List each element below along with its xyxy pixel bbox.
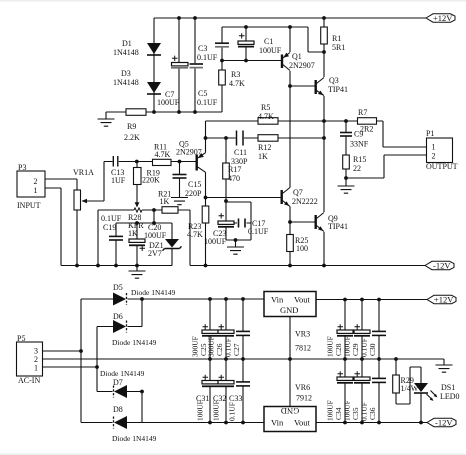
svg-text:AC-IN: AC-IN [18,376,40,385]
capacitor C26 [218,324,234,336]
wire Q1 collector to Q7 collector [289,71,291,188]
potentiometer VR1A [74,190,104,210]
wire D6 row [97,299,142,327]
capacitor C17 [239,219,246,228]
wire C32 branch [225,359,227,423]
svg-text:4.7K: 4.7K [258,112,274,121]
connector P1 [427,138,453,163]
svg-text:470: 470 [228,174,240,183]
wire R25 branch [289,222,291,266]
wire C1 branch [245,27,247,60]
wire C11/R12 row [206,137,325,139]
svg-text:33NF: 33NF [350,140,369,149]
capacitor C9 [340,133,352,137]
wire P5 pin1 [42,366,97,368]
wire R28 row [98,210,190,266]
wire Q5 emitter branch [205,121,207,153]
svg-text:2N2907: 2N2907 [289,61,315,70]
capacitor C1 [238,33,254,46]
wire C9/R15 branch [345,121,347,186]
svg-text:-12V: -12V [433,261,451,271]
svg-text:C36: C36 [368,407,377,420]
svg-text:+12V: +12V [433,13,453,23]
svg-text:100: 100 [296,244,308,253]
svg-text:1K: 1K [160,197,170,206]
wire P1 pin2 return [346,155,427,178]
capacitor C19 [109,236,123,240]
wire Q7 emitter [289,207,291,223]
resistor R19 [134,168,142,185]
svg-text:DS1: DS1 [441,383,455,392]
wire AC leg B vertical [96,327,98,392]
svg-text:LED0: LED0 [440,392,460,401]
wire zener box top [116,210,172,223]
wire C26 branch [225,299,227,359]
svg-text:GND: GND [281,406,299,416]
svg-text:INPUT: INPUT [17,201,41,210]
flag +12V top [426,13,455,23]
svg-text:R15: R15 [353,155,366,164]
wire C13/R11 row [104,161,196,163]
wire C33 branch [242,359,244,423]
diode D7 [114,385,128,398]
resistor R11 [153,159,172,165]
svg-text:Vin: Vin [271,418,284,428]
capacitor C31 [202,375,218,387]
svg-text:R1: R1 [332,34,341,43]
svg-text:D8: D8 [113,405,123,414]
svg-text:Diode 1N4149: Diode 1N4149 [112,338,157,347]
LED DS1 [414,383,437,401]
wire Q9 base [290,221,315,223]
resistor R5 [258,118,278,125]
wire VR1A bottom [76,210,78,266]
connector P5 [17,342,43,376]
wire C5 branch [194,18,196,112]
wire R9 row to ground [106,112,222,119]
svg-text:1K: 1K [128,229,138,238]
wire -12V rail amp [190,210,425,266]
wire Q5.C to Q7.B row [206,197,282,199]
wire input ground rail [61,265,172,267]
connector P3 [17,171,45,197]
wire C20 branch [136,223,138,271]
svg-text:1: 1 [34,364,38,373]
svg-text:2V7: 2V7 [148,249,162,258]
svg-text:22: 22 [353,164,361,173]
ground zener box [129,271,146,278]
wire C25 branch [209,299,211,359]
flag +12V psu [427,295,456,305]
svg-text:P5: P5 [17,334,25,343]
svg-text:Q3: Q3 [329,76,339,85]
svg-text:R17: R17 [228,165,241,174]
svg-text:100UF: 100UF [259,46,282,55]
wire negative raw rail [142,422,264,424]
resistor R21 [162,207,178,214]
wire PSU ground rail [42,359,444,365]
diode D8 [114,416,128,429]
wire Q5 collector [205,172,207,197]
wire R17 branch [225,138,227,221]
wire D5 row [81,298,142,300]
ground under C23 [227,247,244,254]
wire C15 branch [179,162,181,198]
wire C7 branch [178,18,180,112]
wire DZ1 branch [171,223,173,266]
ground under C15 [171,198,188,205]
wire base row Q1 [222,60,281,62]
svg-text:+12V: +12V [434,295,454,305]
resistor R9 [126,109,146,116]
capacitor C5 [190,64,204,68]
svg-text:R9: R9 [127,122,136,131]
svg-text:C15: C15 [188,180,201,189]
svg-text:7812: 7812 [295,344,311,353]
junction dots amp [75,16,348,267]
svg-text:D5: D5 [113,283,123,292]
svg-text:VR1A: VR1A [73,168,94,177]
svg-text:R7: R7 [358,108,367,117]
svg-text:VR3: VR3 [295,330,310,339]
capacitor C33 [236,382,250,386]
resistor R25 [287,235,294,252]
svg-text:GND: GND [280,305,298,315]
labels psu [17,283,460,443]
svg-text:D1: D1 [122,39,132,48]
wire AC leg A vertical [80,299,82,423]
capacitor C30 [372,331,386,335]
svg-text:Diode 1N4149: Diode 1N4149 [131,288,176,297]
capacitor C32 [218,375,234,387]
svg-text:-12V: -12V [435,418,453,428]
svg-text:2: 2 [432,152,436,161]
svg-text:R3: R3 [231,70,240,79]
wire C30 branch [378,300,380,360]
wire output rail vertical [323,96,325,212]
svg-text:C27: C27 [232,343,241,356]
wire C3/R3 branch [221,27,223,112]
zener DZ1 [163,239,182,251]
svg-text:P3: P3 [18,163,26,172]
svg-text:100UF: 100UF [157,98,180,107]
trimmer R28 wiper arrow [135,202,140,207]
wire +12V output row [316,299,427,301]
resistor R1 [321,27,328,44]
wire P3 pin1 down [45,188,61,266]
svg-text:P1: P1 [426,129,434,138]
transistor Q9 [316,213,324,232]
svg-text:2N2222: 2N2222 [292,197,318,206]
wire C31 branch [209,359,211,423]
wire Q9 emitter [323,232,325,266]
capacitor C15 [173,175,187,179]
wire P3 pin2 to VR1A [45,179,77,190]
transistor Q3 [316,78,324,96]
svg-text:2N2907: 2N2907 [176,148,202,157]
wire C23/C17 loop [226,202,251,247]
svg-text:R12: R12 [258,143,271,152]
wire R19 branch [136,162,138,203]
wire C28 branch [344,300,346,360]
resistor R7 [358,118,377,125]
capacitor C7 [171,56,188,68]
svg-text:Vout: Vout [294,418,311,428]
svg-text:Vin: Vin [271,295,284,305]
svg-text:100UF: 100UF [204,237,227,246]
wire C17 stubs [230,222,251,224]
svg-text:100UF: 100UF [212,400,221,421]
svg-text:100UF: 100UF [144,231,167,240]
svg-text:0.1UF: 0.1UF [197,98,218,107]
resistor R12 [258,135,278,142]
wire R29 branch [396,359,421,404]
transistor Q7 [282,188,290,207]
svg-text:1: 1 [432,143,436,152]
svg-text:VR6: VR6 [295,383,310,392]
wire C19 branch [115,223,117,266]
capacitor C25 [202,324,218,336]
ground under R15 [338,186,355,193]
svg-text:220K: 220K [142,176,160,185]
svg-text:0.1UF: 0.1UF [101,214,122,223]
capacitor C28 [337,324,353,336]
svg-text:C30: C30 [368,343,377,356]
wire LED cathode [420,394,422,423]
svg-text:R5: R5 [261,103,270,112]
capacitor C35 [354,371,370,383]
transistor Q5 [197,153,206,173]
trimmer R28 zigzag [134,208,142,212]
svg-text:220P: 220P [185,189,202,198]
capacitor C23 [218,213,234,227]
svg-text:1K: 1K [258,152,268,161]
wire C27 branch [242,299,244,359]
svg-text:4.7K: 4.7K [187,230,203,239]
wire R5/R7 row [206,121,428,147]
wire P5 pin3 [42,350,81,352]
diode D1 [147,43,161,55]
labels amp [17,34,458,258]
ground R9 row [98,119,115,126]
svg-text:5R1: 5R1 [332,43,345,52]
svg-text:0.1UF: 0.1UF [228,402,237,421]
wire D1/D3 branch [153,18,155,112]
svg-text:Q7: Q7 [293,188,303,197]
capacitor C3 [215,43,229,47]
svg-text:4.7K: 4.7K [229,79,245,88]
capacitor C27 [236,331,250,335]
ground PSU right [436,365,453,372]
flag -12V amp [425,261,454,271]
wire positive raw rail [142,298,264,300]
wire R1 branch [323,18,325,52]
capacitor C20 [129,239,145,251]
diode D6 [113,320,127,333]
svg-text:C9: C9 [354,130,363,139]
svg-text:D6: D6 [113,312,123,321]
svg-text:C11: C11 [234,148,247,157]
wire Q3 collector [323,52,325,77]
wire C36 branch [378,359,380,423]
svg-text:D7: D7 [113,378,123,387]
svg-text:1UF: 1UF [111,176,126,185]
wire D7 row [97,392,142,423]
junction dots psu [79,297,423,424]
svg-text:Vout: Vout [294,295,311,305]
resistor R3 [219,70,226,85]
wire VR3 gnd pin [289,317,291,360]
wire Q3 base [290,85,315,87]
wire C29 branch [361,300,363,360]
regulator VR6 [264,406,316,432]
capacitor C36 [372,378,386,382]
wire C35 branch [361,359,363,423]
svg-text:7912: 7912 [296,394,312,403]
resistor R23 [202,206,209,223]
svg-text:Diode 1N4149: Diode 1N4149 [112,434,157,443]
svg-text:C19: C19 [103,223,116,232]
svg-text:0.1UF: 0.1UF [248,227,269,236]
svg-text:TIP41: TIP41 [328,85,348,94]
svg-text:C33: C33 [229,394,242,403]
wire +12V top rail [154,17,426,19]
capacitor C11 [237,131,244,146]
resistor R15 [343,155,350,169]
diode D3 [147,82,161,94]
svg-text:OUTPUT: OUTPUT [426,162,458,171]
svg-text:C5: C5 [198,89,207,98]
svg-text:C3: C3 [198,44,207,53]
wire Q1 emitter [289,27,291,52]
diode D5 [113,293,127,306]
svg-text:1N4148: 1N4148 [113,48,139,57]
svg-text:1: 1 [34,186,38,195]
svg-text:100UF: 100UF [196,400,205,421]
wire y27 link [222,27,324,52]
capacitor C13 [113,156,118,167]
svg-text:2: 2 [34,177,38,186]
regulator VR3 [264,292,316,317]
svg-text:1N4148: 1N4148 [113,78,139,87]
wire R23 branch [205,198,207,266]
wire VR6 gnd pin [289,359,291,407]
resistor R29 [393,375,400,393]
wire VR1A wiper [82,162,104,202]
svg-text:TIP41: TIP41 [328,222,348,231]
flag -12V psu [427,418,456,428]
transistor Q1 [282,53,290,71]
wire C34 branch [344,359,346,423]
svg-text:D3: D3 [121,69,131,78]
svg-text:C1: C1 [264,37,273,46]
wire D8 row [81,422,142,424]
svg-text:0.1UF: 0.1UF [197,53,218,62]
capacitor C29 [354,324,370,336]
svg-text:1/4W: 1/4W [401,384,419,393]
svg-text:2.2K: 2.2K [124,133,140,142]
svg-text:Diode 1N4149: Diode 1N4149 [100,369,145,378]
svg-text:4.7K: 4.7K [155,150,171,159]
capacitor C34 [337,371,353,383]
wire -12V output row [316,422,427,424]
svg-text:Q1: Q1 [292,52,302,61]
resistor R17 [223,163,230,179]
